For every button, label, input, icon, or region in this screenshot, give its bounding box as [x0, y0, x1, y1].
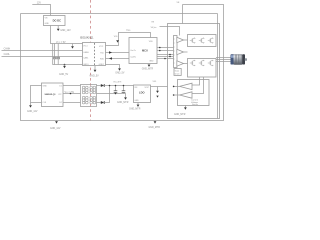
- ground GND_12V left: [29, 105, 32, 107]
- diode D2: [101, 101, 104, 104]
- svg-text:GND_5V: GND_5V: [90, 76, 100, 78]
- svg-text:VCC = 5V: VCC = 5V: [56, 42, 66, 44]
- FET Q6: [208, 60, 214, 66]
- wire LDO out: [151, 86, 168, 88]
- wire PWM 5: [157, 58, 174, 60]
- svg-text:GND_MTR: GND_MTR: [117, 102, 129, 104]
- DC-DC converter: [44, 16, 66, 26]
- wire secondary center tap: [97, 94, 126, 98]
- wire Vcc 5V to ISO1042: [51, 26, 83, 44]
- wire D2: [63, 102, 81, 104]
- svg-text:TXD: TXD: [100, 53, 104, 55]
- svg-text:CANL: CANL: [4, 53, 11, 56]
- FET Q5: [199, 60, 205, 66]
- FET Q3: [208, 37, 214, 43]
- wire GND2: [106, 65, 120, 69]
- LDO: [134, 85, 151, 103]
- svg-text:VDD: VDD: [126, 30, 131, 32]
- ground GND_MTR under LDO: [137, 105, 140, 107]
- outer system box: [21, 5, 224, 121]
- svg-text:MCU: MCU: [142, 49, 148, 53]
- FET Q2: [199, 37, 205, 43]
- svg-text:VIN: VIN: [45, 17, 48, 19]
- wire VM drop: [182, 5, 184, 24]
- svg-text:CANH: CANH: [83, 51, 89, 54]
- svg-text:ISO1042-Q1: ISO1042-Q1: [80, 37, 94, 40]
- wire 12V stub: [32, 5, 50, 16]
- ground marker on 5V rail: [72, 44, 74, 47]
- capacitor C3: [115, 86, 117, 91]
- gate drive buffer T3: [177, 61, 184, 66]
- wire LDO gnd: [137, 103, 139, 105]
- wire sense out 2: [174, 94, 180, 96]
- FET Q4: [190, 60, 196, 66]
- svg-text:D1: D1: [59, 86, 61, 88]
- wire CANH: [2, 50, 83, 52]
- transformer: [81, 85, 97, 107]
- svg-text:GND1: GND1: [83, 64, 88, 66]
- svg-text:GND: GND: [134, 100, 139, 102]
- gate drive buffer T1: [177, 37, 184, 42]
- ground GND_MTR at caps: [124, 97, 127, 99]
- wire sense out 1: [174, 85, 180, 87]
- svg-text:VDD: VDD: [149, 41, 154, 43]
- wire phase C: [216, 61, 231, 63]
- svg-text:LDO: LDO: [139, 90, 144, 94]
- wire RXD: [106, 58, 130, 60]
- ground GND_MTR on bottom edge: [154, 120, 156, 123]
- sense amp S2: [180, 92, 193, 98]
- gate drive buffer T2: [177, 49, 184, 54]
- svg-text:RXD: RXD: [100, 58, 105, 60]
- svg-text:VCC1: VCC1: [83, 45, 87, 47]
- svg-text:GND_MTR: GND_MTR: [129, 109, 141, 111]
- ground GND_5V left: [64, 65, 66, 66]
- svg-text:GND_12V: GND_12V: [27, 111, 38, 113]
- high-side FET bridge: [188, 35, 217, 47]
- ground GND_12V under DC-DC: [57, 26, 59, 29]
- wire sense in 1: [192, 77, 200, 85]
- svg-text:Sense: Sense: [192, 104, 199, 106]
- wire SN6505 GND: [31, 86, 42, 106]
- wire PWM 3: [157, 54, 174, 56]
- svg-text:GND2: GND2: [99, 64, 104, 66]
- ground GND_5V right: [118, 68, 121, 70]
- svg-text:GND_12V: GND_12V: [60, 30, 71, 32]
- svg-text:GND_5V: GND_5V: [59, 74, 69, 76]
- wire primary center tap: [63, 93, 81, 95]
- ground GND_MTR under MCU: [148, 65, 151, 67]
- svg-text:GND_MTR: GND_MTR: [142, 68, 154, 70]
- svg-text:GND_5V: GND_5V: [115, 73, 125, 75]
- wire VM_drv: [160, 27, 180, 36]
- ground GND_5V center below ISO: [94, 66, 96, 70]
- gate driver pin column: [174, 36, 178, 68]
- gate drive block: [174, 69, 181, 76]
- sense amp S1: [180, 83, 193, 89]
- wire GND1 bus: [53, 44, 83, 65]
- wire PWM 2: [157, 50, 174, 52]
- wire secondary bottom: [97, 102, 101, 104]
- driver section box: [168, 24, 220, 119]
- svg-text:GND: GND: [149, 61, 154, 63]
- wire SN6505 CLK: [31, 102, 42, 104]
- MCU: [129, 38, 157, 64]
- svg-text:VIN: VIN: [134, 87, 137, 89]
- capacitor C2 on 5V rail: [57, 44, 59, 58]
- svg-text:CANL: CANL: [83, 57, 88, 60]
- svg-text:VCC_MTR: VCC_MTR: [113, 82, 122, 84]
- wire phase B: [216, 59, 231, 61]
- wire join: [104, 86, 109, 103]
- svg-text:CanRx: CanRx: [130, 56, 136, 58]
- capacitor C1 on 5V rail: [54, 44, 56, 58]
- low-side FET bridge: [188, 59, 217, 78]
- svg-text:VM_drv: VM_drv: [151, 27, 157, 29]
- wire D1: [63, 85, 81, 87]
- wire secondary top: [97, 85, 101, 87]
- svg-text:CanTx: CanTx: [130, 50, 136, 52]
- wire TXD: [106, 52, 130, 54]
- capacitor C4: [123, 86, 125, 91]
- wire sense in 2: [192, 77, 204, 94]
- wire PWM 4: [157, 56, 174, 58]
- ground GND_12V on bottom edge: [56, 120, 58, 123]
- svg-text:VCC2: VCC2: [99, 46, 103, 48]
- ground GND_MTR under sense: [184, 107, 187, 109]
- svg-text:VOUT: VOUT: [145, 87, 150, 89]
- wire inner right vertical: [217, 14, 219, 119]
- wire phase A: [216, 57, 231, 59]
- junction: [64, 64, 66, 66]
- svg-text:GND_MTR: GND_MTR: [149, 127, 161, 129]
- isolation barrier (red dashed line): [90, 0, 92, 121]
- svg-text:GND: GND: [43, 86, 48, 88]
- wire Vcc2 to Vdd rail: [106, 33, 151, 46]
- svg-text:D2: D2: [59, 102, 61, 104]
- diode D1: [101, 84, 104, 87]
- motor: [231, 54, 248, 65]
- wire rectified rail: [104, 85, 133, 87]
- svg-text:GND_MTR: GND_MTR: [174, 114, 186, 116]
- wire PWM 1: [157, 47, 174, 49]
- current/voltage sense block: [178, 80, 210, 106]
- transformer driver SN6505-Q1: [42, 83, 64, 107]
- svg-text:GND: GND: [45, 23, 50, 25]
- wire CANL: [2, 56, 83, 58]
- wire sense gnd: [184, 106, 186, 108]
- wire top 12V rail: [21, 13, 218, 15]
- wire MCU GND: [148, 64, 150, 65]
- svg-text:GND_12V: GND_12V: [50, 128, 61, 130]
- svg-text:SN6505-Q1: SN6505-Q1: [45, 94, 57, 96]
- svg-text:DC-DC: DC-DC: [53, 18, 61, 22]
- FET Q1: [190, 37, 196, 43]
